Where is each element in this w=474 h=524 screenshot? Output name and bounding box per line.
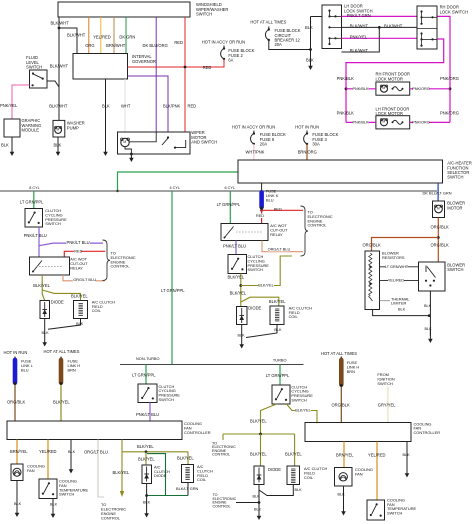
wire BLK/YEL to right coil [241,297,279,306]
junction BLK nt [145,494,148,497]
svg-text:BLK: BLK [425,327,433,331]
wire BLK left fan [16,481,18,510]
svg-text:BLU: BLU [266,197,274,202]
fuse link L [14,357,16,359]
svg-text:SWITCH: SWITCH [196,11,212,16]
ground wiper motor [130,154,132,159]
wire LT GRN/PPL 4cyl bus [171,191,173,365]
wire PNK/BLK to rh motor [346,88,376,90]
non-turbo/turbo option line [120,364,304,366]
wire BLK/PNK from governor [128,76,169,132]
svg-text:YEL/RED: YEL/RED [388,278,405,282]
a/c wot cut-out relay box right [221,224,268,241]
svg-text:6A: 6A [228,57,233,62]
svg-text:BLK: BLK [295,488,303,492]
svg-text:SWITCH: SWITCH [248,267,264,272]
junction BLK/YEL turbo diode [259,433,262,436]
wire BLK nt diode down [146,484,148,511]
ground left fan [16,509,18,514]
wire BRN/YEL left [16,440,18,465]
svg-text:BLK/YEL: BLK/YEL [137,444,154,449]
svg-text:LOCK MOTOR: LOCK MOTOR [376,76,403,81]
svg-text:CONTROL: CONTROL [213,504,231,508]
svg-text:BLU: BLU [21,367,29,372]
svg-text:COIL: COIL [289,314,299,319]
label BLK/YEL inline right [258,283,274,287]
svg-text:CONTROL: CONTROL [212,453,230,457]
junction breaker wire [309,48,312,51]
wire BLK left coil [48,319,81,330]
wire RED from fuse 2 [128,59,225,67]
fuse link H right [340,357,342,359]
svg-text:BLK/YEL: BLK/YEL [138,456,155,461]
wire BLK/YEL into left diode [42,294,45,301]
diode box right [237,307,248,325]
svg-text:PNK/BLK: PNK/BLK [337,111,355,116]
label PNK/BLK inline lh [353,120,369,124]
wire BLK left controller [70,440,72,467]
ground left controller [70,466,72,470]
svg-text:BLK/WHT: BLK/WHT [49,104,68,109]
svg-text:LT GRN/PPL: LT GRN/PPL [266,373,290,378]
svg-text:BRN/YEL: BRN/YEL [10,449,28,454]
wire BLK nt coil down [187,483,189,496]
svg-text:PNK/LT GRN: PNK/LT GRN [347,13,371,18]
wiper box ground junction [130,153,133,156]
svg-text:PNK/ORG: PNK/ORG [440,111,459,116]
ground washer pump [57,148,59,153]
svg-text:RELAY: RELAY [270,232,283,237]
wire BLK/YEL right lateral [241,256,292,286]
wire PNK/LT BLU right relay to switch [235,241,237,255]
fuse block fuse 3 [306,131,308,134]
svg-text:ORG/LT BLU: ORG/LT BLU [268,246,291,251]
svg-text:SWITCH: SWITCH [159,397,175,402]
wire YEL/RED left [47,440,49,480]
svg-text:BLK: BLK [338,492,346,496]
svg-text:LT GRN/PPL: LT GRN/PPL [20,200,44,205]
ground right controller [406,470,408,475]
label ORG/LT BLU right [267,247,290,252]
junction fuse link K red [260,209,263,212]
lh front door lock motor box [376,116,410,129]
a/c-heater function selector switch box [238,160,443,183]
ground lh switch [310,62,312,67]
svg-text:30A: 30A [312,141,320,146]
svg-text:BLK/WHT: BLK/WHT [67,33,86,38]
svg-text:PNK/YEL: PNK/YEL [350,34,368,39]
wire ORG/LT BLU left relay [63,275,105,281]
svg-text:SWITCH: SWITCH [45,221,61,226]
svg-text:ORG/BLK: ORG/BLK [332,403,350,408]
svg-text:CONTROL: CONTROL [111,264,131,269]
wire BLK lh switch [310,17,312,63]
svg-text:RED: RED [188,104,197,109]
svg-text:DK BLU/ORG: DK BLU/ORG [143,43,168,48]
svg-text:PNK/LT BLU: PNK/LT BLU [136,412,159,417]
svg-text:20A: 20A [275,42,283,47]
tick to eec turbo [222,434,224,440]
wire BLK/YEL nt diode [145,452,147,465]
junction BLK/WHT door [378,26,381,29]
svg-text:TURBO: TURBO [273,358,287,363]
wiper switch contacts [167,136,169,138]
svg-text:BLK/YEL: BLK/YEL [113,470,130,475]
cooling fan box right [335,468,353,487]
cooling fan controller box left [7,421,182,440]
label RED right relay [256,214,263,218]
svg-text:BRN/WHT: BRN/WHT [106,43,126,48]
svg-text:SWITCH: SWITCH [59,492,75,497]
svg-text:M: M [57,127,60,131]
svg-text:MOTOR: MOTOR [447,205,462,210]
wire RED right to eec [262,209,303,211]
wire PNK/YEL loop to pnk/blk bus [346,39,444,122]
svg-text:BRN: BRN [347,369,355,374]
svg-text:MODULE: MODULE [22,127,40,132]
svg-text:BLK/YEL: BLK/YEL [53,400,70,405]
wire BLK washer pump [57,137,59,148]
stub to lh switch [311,16,323,18]
svg-text:YEL/RED: YEL/RED [368,452,386,457]
ground right fan [343,507,345,512]
cooling fan temperature switch box right [367,500,385,520]
tap LT GRN/WHT [380,266,419,268]
svg-text:BLK/YEL: BLK/YEL [250,419,267,424]
wire PNK/YEL lh-rh [342,37,418,39]
svg-text:HOT IN ACCY OR RUN: HOT IN ACCY OR RUN [202,40,245,45]
svg-text:GOVERNOR: GOVERNOR [132,59,156,64]
wire YEL/RED right [376,442,378,501]
svg-text:ORG/BLK: ORG/BLK [431,225,449,230]
svg-text:HOT IN RUN: HOT IN RUN [4,350,28,355]
svg-text:BLK/YEL: BLK/YEL [228,275,245,280]
svg-text:DIODE: DIODE [51,300,64,305]
wire BLK/YEL lateral turbo [223,433,295,435]
wire LT GRN/PPL non-turbo [145,365,147,385]
wire YEL/RED [100,17,102,54]
wiper motor internal wires [129,132,156,142]
wire BLK/LT GRN return [147,454,166,496]
clutch cycling pressure switch box right [228,255,247,274]
svg-text:8 CYL: 8 CYL [29,186,40,190]
junction BLK/YEL right [239,284,242,287]
svg-text:BLK: BLK [143,501,151,505]
diode box turbo [254,466,264,485]
wire BLK gwm [11,137,13,148]
svg-text:BLK/YEL: BLK/YEL [177,456,194,461]
ground governor BLK [105,149,107,153]
washer pump box [53,120,65,137]
clutch cycling pressure switch box turbo [272,385,290,404]
svg-text:PNK/BLK: PNK/BLK [337,76,355,81]
svg-text:RELAY: RELAY [70,265,83,270]
wire BLK right controller [406,442,408,470]
fuse block fuse 9 [253,131,255,134]
svg-text:COIL: COIL [197,477,207,482]
wire BRN/WHT [113,17,115,54]
svg-text:SWITCH: SWITCH [377,381,393,386]
wire BLK right coil [246,325,277,338]
ground left diode [44,339,46,343]
ground blower [429,330,431,340]
svg-text:RED: RED [256,214,264,218]
label YEL/RED tap [388,278,404,282]
svg-text:BLK/YEL: BLK/YEL [269,299,286,304]
svg-text:BLK/PNK: BLK/PNK [163,104,181,109]
svg-text:BLK: BLK [403,453,411,457]
svg-text:CONTROL: CONTROL [308,223,328,228]
svg-text:BRN/ORG: BRN/ORG [298,150,317,155]
junction BLK/YEL non-turbo [145,450,148,453]
svg-text:BLK/YEL: BLK/YEL [295,409,310,413]
engine rule line [0,190,437,192]
svg-text:M: M [382,120,385,124]
lh switch contacts [328,10,330,12]
svg-text:BLK: BLK [14,502,22,506]
svg-text:BLK/WHT: BLK/WHT [350,48,369,53]
svg-text:PNK/ORG: PNK/ORG [412,87,430,91]
label PNK/BLK inline rh [353,87,369,91]
wire BRN/ORG [306,144,308,160]
wire PNK/ORG from lh motor [410,121,450,123]
rh door lock switch box [417,6,437,49]
svg-text:PNK/LT BLU: PNK/LT BLU [223,244,246,249]
wire PNK/LT BLU to eec [39,243,103,246]
wire PNK/BLK to lh motor [346,121,376,123]
label ORG/LT BLU left [73,278,96,283]
svg-text:PNK/ORG: PNK/ORG [412,121,430,125]
svg-text:PNK/BLK: PNK/BLK [352,87,369,91]
ground turbo diode [258,512,260,517]
wire BLK right diode [241,325,243,342]
junction BLK/WHT [58,27,61,30]
svg-text:BLK: BLK [102,104,110,109]
svg-text:BLK: BLK [42,331,50,335]
svg-text:BLK: BLK [424,304,432,308]
wire BLK resistors bottom [373,310,431,316]
junction pnk/org bus [449,87,452,90]
wire from breaker to lh switch [269,40,311,50]
ground nt diode [146,510,148,514]
a/c wot cut-out relay box left [30,257,70,275]
wire BLK/WHT lower loop [342,27,380,52]
washer pump motor circle [55,127,62,134]
blower motor box [433,201,445,218]
wire BLK/LT GRN bottom [147,495,188,497]
wire ORG/BLK right [340,387,342,423]
ground gwm [11,148,13,153]
svg-text:PNK/YEL: PNK/YEL [0,103,18,108]
svg-text:HOT IN ACCY OR RUN: HOT IN ACCY OR RUN [232,124,275,129]
svg-text:PUMP: PUMP [67,125,79,130]
wire BLK/WHT branch to governor [59,28,77,54]
svg-text:BLK/YEL: BLK/YEL [71,293,88,298]
svg-text:ORG/BLK: ORG/BLK [431,242,449,247]
svg-text:20A: 20A [260,141,268,146]
wire PNK/YEL [12,85,30,119]
wire BLK/YEL turbo left branch [261,404,277,434]
svg-text:SWITCH: SWITCH [387,511,403,516]
wire DK BLU/LT GRN [437,183,439,201]
wire BLK right fan [343,486,345,507]
svg-text:COIL: COIL [92,308,102,313]
svg-text:BLK/YEL: BLK/YEL [258,284,273,288]
svg-text:ORG/BLK: ORG/BLK [7,400,25,405]
cooling fan temperature switch box left [39,479,57,499]
svg-text:BLK: BLK [54,143,62,148]
fuse link K [261,183,263,191]
svg-text:RED: RED [203,65,212,70]
label LT GRN/WHT [385,264,407,268]
wire BLK left diode [44,319,46,340]
wiper motor circle [121,138,129,146]
wire fluid switch to BLK/WHT [47,81,59,87]
svg-text:BLK: BLK [254,508,262,512]
svg-text:DIODE: DIODE [154,473,167,478]
svg-text:BLK: BLK [274,328,282,332]
wire to eec horizontal [236,502,259,504]
wire BLK/YEL turbo right branch [287,404,318,423]
cooling fan box left [11,464,23,481]
svg-text:LT GRN/PPL: LT GRN/PPL [161,288,185,293]
wire PNK/LT BLU left switch to relay [38,227,40,257]
label RED left relay [74,249,81,253]
wire BLK/YEL lateral non-turbo [122,451,188,453]
wire BLK/YEL controller to clutch [121,440,123,493]
wire ORG [88,17,90,54]
blower switch box [419,262,446,291]
wiper motor and switch box [118,132,191,154]
junction BLK blower [428,314,431,317]
svg-text:LT GRN/PPL: LT GRN/PPL [217,202,241,207]
wire BLK from governor [105,79,107,149]
svg-text:CONTROL: CONTROL [101,515,121,520]
svg-text:BLK/YEL: BLK/YEL [285,452,302,457]
wire ORG/BLK blower down [437,218,439,263]
wire BLK/YEL right switch down [240,274,242,307]
label BLK/YEL turbo inline [295,408,311,412]
wire DK BLU/ORG [155,17,157,132]
svg-text:AND SWITCH: AND SWITCH [191,139,217,144]
wire BLK/YEL turbo coil [294,434,296,466]
svg-text:RED: RED [74,249,82,253]
svg-text:ORG/LT BLU: ORG/LT BLU [84,449,108,454]
wire PNK/ORG from rh motor [410,88,450,90]
svg-text:NON-TURBO: NON-TURBO [136,356,160,361]
svg-text:BLK/WHT: BLK/WHT [51,21,70,26]
wire BLK/YEL turbo diode [260,434,262,466]
wire LT GRN/PPL 6cyl [229,191,231,224]
clutch cycling pressure switch box non-turbo [138,384,157,403]
svg-text:BLK: BLK [1,143,9,148]
thermal limiter pointer [380,300,391,302]
svg-text:BLK: BLK [50,503,58,507]
svg-text:BLK/YEL: BLK/YEL [230,291,247,296]
svg-text:M: M [123,140,126,144]
svg-text:SWITCH: SWITCH [447,175,463,180]
svg-text:PNK/LT BLU: PNK/LT BLU [24,233,47,238]
svg-text:PNK/BLK: PNK/BLK [352,121,369,125]
a/c clutch field coil box right [270,306,284,325]
svg-text:BRN: BRN [68,367,76,372]
svg-text:WHT/PNK: WHT/PNK [246,150,265,155]
svg-text:LT GRN/PPL: LT GRN/PPL [132,373,156,378]
svg-text:HOT IN RUN: HOT IN RUN [295,124,319,129]
svg-text:BLK/YEL: BLK/YEL [250,452,267,457]
wire BLK/WHT from wiper switch [58,17,60,28]
svg-text:BLK/WHT: BLK/WHT [384,23,403,28]
svg-text:BLK: BLK [305,25,313,30]
wire GRY/YEL [387,387,389,423]
junction BLK turbo eec [258,501,261,504]
svg-text:BLK/WHT: BLK/WHT [50,64,69,69]
svg-text:LIMITER: LIMITER [391,301,407,306]
svg-text:DK GRN: DK GRN [119,34,135,39]
wire BLK left temp switch [52,499,54,511]
brace to eec right [301,206,309,256]
junction green rule [116,190,118,192]
svg-text:PNK/ORG: PNK/ORG [440,76,459,81]
svg-text:SWITCH: SWITCH [447,267,463,272]
a/c clutch field coil box turbo [287,466,300,485]
svg-text:CONTROLLER: CONTROLLER [414,430,441,435]
svg-text:PNK/LT BLU: PNK/LT BLU [67,240,90,245]
svg-text:HOT AT ALL TIMES: HOT AT ALL TIMES [250,20,286,25]
wire BLK turbo diode down [258,485,260,513]
fuse link H left [60,357,62,359]
svg-text:BLK/LT GRN: BLK/LT GRN [176,486,199,491]
wire BLK/YEL to left coil [42,290,80,301]
rh switch contacts [420,10,422,12]
svg-text:FAN: FAN [355,471,363,476]
windshield wiper/washer switch box [58,2,190,17]
wire ORG/LT BLU right relay [262,241,303,252]
svg-text:4 CYL: 4 CYL [170,186,181,190]
svg-text:BLK: BLK [68,450,76,454]
svg-text:RESISTORS: RESISTORS [382,255,405,260]
junction RED [184,66,187,69]
wire PNK/LT BLU non-turbo [149,403,151,422]
svg-text:CONTROLLER: CONTROLLER [184,430,211,435]
svg-text:DIODE: DIODE [268,467,281,472]
wire ORG/BLK left [14,385,16,421]
svg-text:BLK/YEL: BLK/YEL [33,283,50,288]
wire RED left relay to eec [64,251,105,257]
svg-text:YEL/RED: YEL/RED [39,449,57,454]
wire LT GRN/PPL wiper to selector [118,172,239,191]
wire LT GRN/PPL turbo [279,365,281,386]
cooling fan controller box right [305,423,411,442]
svg-text:SWITCH: SWITCH [26,64,42,69]
wire BLK/YEL nt coil [187,452,189,465]
svg-text:RED: RED [174,40,183,45]
label PNK/ORG inline rh [413,87,429,91]
svg-text:ORG/LT BLU: ORG/LT BLU [73,277,96,282]
wire BRN/YEL right [343,442,345,468]
junction pnk/blk bus [345,87,348,90]
wire ORG/LT BLU controller [98,440,104,498]
fuse block fuse 2 [223,46,225,49]
clutch cycling pressure switch box left [25,209,43,228]
svg-text:BLK: BLK [306,58,314,63]
svg-text:FAN: FAN [27,468,35,473]
svg-text:M: M [437,206,440,210]
svg-text:HOT AT ALL TIMES: HOT AT ALL TIMES [44,349,80,354]
svg-text:BLK: BLK [76,322,84,326]
svg-text:GRY/YEL: GRY/YEL [378,403,396,408]
brace to eec left [103,240,111,281]
